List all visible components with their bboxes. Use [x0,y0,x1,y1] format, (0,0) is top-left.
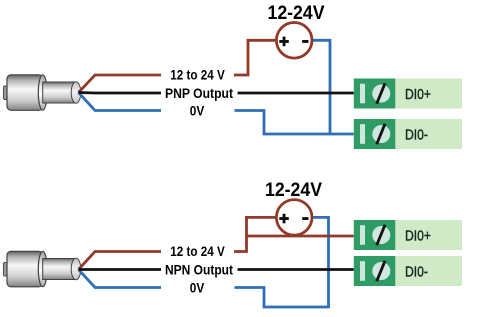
wire: black PNP output from sensor to DI0+ [79,91,354,94]
label: 0V (PNP) [161,103,235,118]
sensor S1 (PNP proximity sensor body) [4,75,81,111]
svg-text:DI0+: DI0+ [405,87,431,103]
label: 12 to 24 V (PNP) [161,68,234,83]
wire: brown +V lead from sensor up to supply + (NPN) [79,217,277,269]
svg-text:NPN Output: NPN Output [165,263,233,278]
terminal DI0+ (PNP) [354,79,462,109]
wire: blue from supply - down to DI0- rail (PNP) [312,40,330,134]
label: 0V (NPN) [161,280,235,295]
power supply V2 (12-24V source, NPN circuit) [276,200,312,236]
wire: brown branch from +V to DI0+ (NPN) [247,235,354,238]
svg-text:DI0-: DI0- [405,128,428,144]
wire: blue 0V lead from sensor to DI0- rail (PNP) [79,93,354,135]
svg-text:12-24V: 12-24V [265,180,322,201]
wire: black NPN output from sensor to DI0- [79,268,354,271]
svg-text:0V: 0V [190,280,205,295]
label: NPN Output [161,262,238,278]
terminal DI0+ (NPN) [354,220,462,250]
svg-text:PNP Output: PNP Output [165,86,233,101]
power supply V1 (12-24V source, PNP circuit) [276,23,312,59]
terminal DI0- (PNP) [354,119,462,149]
wire: blue 0V lead from sensor to supply - (NPN) [79,217,329,307]
svg-text:DI0-: DI0- [405,265,428,281]
svg-text:12 to 24 V: 12 to 24 V [170,68,225,83]
svg-text:DI0+: DI0+ [405,229,431,245]
svg-text:0V: 0V [190,103,205,118]
terminal DI0- (NPN) [354,256,462,286]
wire: brown +V lead from sensor to supply + (PNP) [79,40,277,92]
label: 12 to 24 V (NPN) [161,244,234,259]
sensor S2 (NPN proximity sensor body) [4,251,81,286]
svg-text:12 to 24 V: 12 to 24 V [170,244,225,259]
label: PNP Output [161,86,238,102]
svg-text:12-24V: 12-24V [268,3,325,24]
